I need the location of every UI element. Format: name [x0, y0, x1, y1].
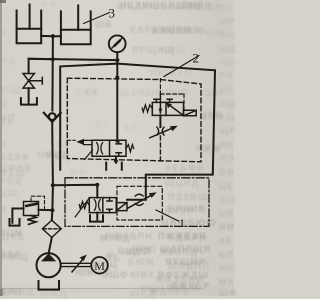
- tank relief valve: [10, 219, 20, 226]
- throttle valve upper: [150, 115, 178, 160]
- pilot dashed lines upper valve: [160, 79, 184, 111]
- shut-off valve: [23, 74, 42, 89]
- tank under lower valve: [90, 215, 103, 221]
- svg-text:M: M: [94, 259, 105, 273]
- junction dot: [51, 34, 55, 38]
- actuator diagonal middle valve: [85, 150, 93, 160]
- spring relief valve: [27, 216, 36, 225]
- pipe relief inlet: [39, 209, 53, 211]
- tank under middle valve: [106, 163, 122, 170]
- pipe shutoff to tank: [28, 88, 30, 103]
- junction dot: [51, 183, 55, 187]
- pilot dashed relief valve: [31, 196, 45, 209]
- variable arrow over shaft: [72, 255, 87, 272]
- throttle valve lower: [127, 192, 157, 208]
- relief valve: [24, 202, 39, 216]
- inlet arrow middle valve: [67, 139, 92, 145]
- check valve: [44, 113, 61, 122]
- svg-text:1: 1: [179, 216, 185, 230]
- junction dot: [51, 57, 55, 61]
- supply branch to box 1: [53, 185, 97, 198]
- drain pipe middle valve: [115, 156, 117, 162]
- svg-text:2: 2: [193, 51, 200, 66]
- drive shaft: [61, 263, 92, 266]
- filter: [42, 220, 61, 237]
- tank under shut-off valve: [21, 98, 37, 105]
- pipe between cylinders: [41, 35, 61, 37]
- return line B: [60, 64, 215, 199]
- solenoid valve upper (in box 2): [152, 95, 196, 116]
- tank under pump: [39, 281, 60, 290]
- pump: [37, 253, 61, 277]
- cylinder right (plunger cylinder, item 3): [61, 5, 91, 44]
- spring W lower valve: [79, 202, 89, 209]
- pressure gauge: [109, 35, 126, 52]
- inner dashed box (box 1): [117, 186, 162, 220]
- spring W upper valve: [142, 105, 152, 112]
- leader line label 2: [164, 56, 199, 77]
- drain pipe lower valve: [96, 213, 98, 220]
- gauge stem pipe: [116, 52, 118, 78]
- pipe gauge line into box 2: [116, 78, 118, 141]
- pipe main line A lower: [52, 122, 53, 220]
- spring W middle valve: [126, 145, 134, 152]
- dashed box 2: [67, 78, 201, 162]
- actuator diagonal lower valve: [75, 198, 89, 217]
- junction dot: [115, 58, 119, 62]
- solenoid valve lower (in box 1): [89, 198, 127, 213]
- leader line label 3: [84, 13, 110, 24]
- leader line label 1: [156, 210, 179, 221]
- junction dot: [50, 208, 54, 212]
- pipe P3 top manifold: [29, 59, 118, 60]
- motor M: [91, 257, 108, 274]
- pipe to shut-off valve: [29, 59, 53, 73]
- junction dot drain: [114, 159, 118, 163]
- pipe relief drain to tank: [12, 209, 23, 223]
- chain-line box 1: [65, 178, 209, 227]
- junction dot valve top: [116, 139, 120, 143]
- bleed-through text layer: [217, 0, 234, 296]
- junction dot: [95, 183, 99, 187]
- cylinder left (plunger cylinder): [17, 5, 42, 44]
- pipe main line A upper: [51, 36, 54, 110]
- pipe filter to pump: [49, 237, 52, 253]
- pilot valve middle (in box 2): [92, 140, 126, 156]
- junction dot on box edge: [115, 76, 119, 80]
- svg-text:3: 3: [109, 6, 116, 21]
